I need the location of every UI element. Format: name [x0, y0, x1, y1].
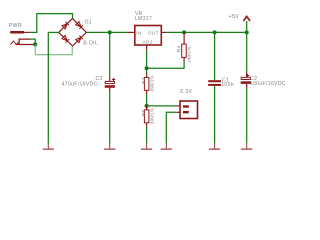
resistor R3 body: [144, 77, 149, 90]
ground symbol 3 bar: [141, 149, 152, 150]
node R4 junction dot: [182, 30, 186, 34]
wire PWR pin1 to bridge top: [29, 14, 73, 33]
diode D top-right (T to R): [76, 21, 83, 28]
wire PWR pin3 to junction: [30, 39, 35, 44]
wire ADJ down: [146, 50, 148, 68]
wire R5 to ground: [146, 127, 148, 144]
svg-text:PWR: PWR: [9, 23, 23, 29]
ground symbol 6 lead: [246, 143, 248, 148]
svg-text:ADJ: ADJ: [142, 39, 152, 45]
bridge rectifier G1 diamond edges: [59, 18, 87, 46]
capacitor C2 top lead: [246, 72, 248, 78]
connector PWR pin 3 bent lead: [19, 39, 30, 45]
svg-text:100n: 100n: [221, 82, 234, 88]
wire ADJ node to R3: [146, 68, 148, 73]
svg-text:470uF/16VDC: 470uF/16VDC: [62, 82, 98, 88]
resistor R5 top lead: [146, 106, 148, 110]
node +5V junction dot: [245, 30, 249, 34]
node jack junction dot: [33, 42, 37, 46]
supply +5V stub wire: [246, 21, 248, 32]
ground symbol 4 bar: [161, 149, 172, 150]
resistor R3 top lead: [146, 74, 148, 78]
ground symbol 2 bar: [104, 149, 115, 150]
node divider junction dot: [145, 104, 149, 108]
capacitor C1 top plate: [208, 80, 221, 82]
connector PWR pin 1 (thick bar): [10, 31, 24, 34]
diode D bottom-left (L to B): [62, 35, 69, 42]
svg-text:+5V: +5V: [229, 14, 240, 20]
svg-text:240/1%: 240/1%: [186, 47, 191, 63]
resistor R3 bottom lead: [146, 90, 148, 94]
capacitor C3 plus sign: [112, 78, 115, 81]
pin lead LM317 IN: [127, 31, 135, 33]
svg-text:R4: R4: [176, 45, 182, 52]
svg-text:100uF/16VDC: 100uF/16VDC: [250, 81, 286, 87]
wire bridge right vertex to LM317 IN: [86, 31, 127, 33]
wire divider node to 3.3V header pin1: [147, 105, 177, 107]
ground symbol 5 bar: [209, 149, 220, 150]
resistor R5 body: [144, 110, 149, 123]
wire OUT rail: [166, 31, 247, 33]
wire C1 top: [214, 32, 216, 80]
wire GND rail vertical: [47, 32, 49, 143]
svg-text:OUT: OUT: [148, 30, 159, 36]
capacitor C3 bottom lead: [109, 88, 111, 92]
svg-text:390/1%: 390/1%: [150, 108, 155, 124]
connector PWR pin 2 tick: [18, 41, 20, 45]
capacitor C2 bottom lead: [246, 84, 248, 88]
wire C2 top: [246, 32, 248, 71]
ground symbol 2 lead: [109, 143, 111, 148]
ground symbol 1 bar: [43, 149, 54, 150]
ground symbol 1 lead: [47, 143, 49, 148]
resistor R4 top lead: [183, 32, 185, 44]
wire jack junction to bridge bottom: [35, 44, 72, 54]
capacitor C3 negative plate: [105, 85, 115, 88]
header JP 3.3V box: [180, 101, 198, 119]
op-amp regulator VR LM317 box: [135, 26, 162, 46]
resistor R5 bottom lead: [146, 123, 148, 127]
capacitor C2 plus sign: [246, 74, 249, 77]
svg-text:G1: G1: [85, 19, 93, 25]
ground symbol 6 bar: [241, 149, 252, 150]
wire C2 bottom: [246, 88, 248, 143]
pin lead LM317 ADJ: [146, 45, 148, 50]
capacitor C3 positive plate (hollow): [105, 81, 114, 83]
capacitor C2 positive plate (hollow): [241, 77, 250, 79]
supply +5V arrow: [243, 16, 250, 21]
node ADJ junction dot: [145, 66, 149, 70]
wire 3.3V header pin2 to ground: [166, 112, 176, 143]
header 3.3V pin2 bar: [183, 111, 189, 113]
connector PWR pin 1 lead: [24, 31, 29, 33]
node C1 junction dot: [213, 30, 217, 34]
svg-text:LM317: LM317: [135, 16, 152, 22]
diode D bottom-right (B to R): [76, 36, 83, 43]
svg-text:IN: IN: [136, 30, 142, 36]
capacitor C1 bottom plate: [208, 84, 221, 86]
pin lead LM317 OUT: [161, 31, 165, 33]
pin lead 3.3V header pin2: [176, 111, 180, 113]
svg-text:R3: R3: [141, 77, 147, 84]
diode D top-left (L to T): [62, 22, 69, 29]
pin lead 3.3V header pin1: [176, 105, 180, 107]
header 3.3V pin1 bar: [183, 105, 189, 107]
node C3 junction dot: [108, 30, 112, 34]
wire C3 bottom: [109, 92, 111, 143]
svg-text:3.3V: 3.3V: [180, 89, 193, 95]
wire R4 to ADJ node: [147, 62, 185, 69]
resistor R4 bottom lead: [183, 57, 185, 61]
wire bridge left vertex to GND rail: [48, 31, 58, 33]
connector PWR pin 2 zigzag: [11, 41, 19, 45]
capacitor C2 negative plate: [241, 81, 251, 84]
wire R3 to divider node: [146, 94, 148, 106]
ground symbol 3 lead: [146, 143, 148, 148]
svg-text:390/1%: 390/1%: [150, 75, 155, 91]
ground symbol 5 lead: [214, 143, 216, 148]
connector PWR pin 2 lead: [16, 44, 34, 46]
capacitor C3 top lead: [109, 77, 111, 81]
wire C1 bottom: [214, 86, 216, 143]
ground symbol 4 lead: [165, 143, 167, 148]
svg-text:B-DIL: B-DIL: [83, 40, 98, 46]
wire C3 top: [109, 32, 111, 77]
resistor R4 body: [182, 44, 187, 57]
svg-text:R5: R5: [141, 109, 147, 116]
